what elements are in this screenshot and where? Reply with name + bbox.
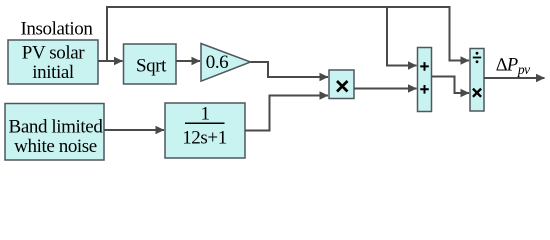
block: Sqrt xyxy=(124,44,177,84)
block: divide xyxy=(470,49,484,112)
wire: transfer fcn output to product input 2 xyxy=(245,96,328,131)
block: Band limited white noise (source) xyxy=(5,104,104,161)
svg-text:∆Ppv: ∆Ppv xyxy=(496,56,530,78)
block: sum (+ +) xyxy=(418,48,432,112)
block: product (multiply) xyxy=(329,70,354,99)
block: PV solar initial (source) xyxy=(8,40,98,84)
svg-text:Band limited: Band limited xyxy=(9,117,104,138)
svg-text:initial: initial xyxy=(32,62,74,83)
label: Insolation xyxy=(21,18,94,39)
block: gain 0.6 (triangle) xyxy=(201,44,251,82)
label: delta P pv (output signal) xyxy=(496,56,530,78)
wire: sum output to divide input 2 xyxy=(432,77,470,94)
svg-text:Insolation: Insolation xyxy=(21,18,94,39)
wire: divide output (diagram output arrow) xyxy=(484,77,545,79)
svg-text:12s+1: 12s+1 xyxy=(182,128,227,149)
wire: PV output to Sqrt input xyxy=(98,60,123,62)
svg-text:1: 1 xyxy=(200,104,209,125)
wire: Sqrt output to gain input xyxy=(176,60,200,62)
wire: branch junction on top wire down to sum input 1 xyxy=(387,7,417,66)
wire: noise output to transfer fcn input xyxy=(104,129,164,131)
block: transfer function 1/(12s+1) xyxy=(165,103,245,158)
wire: gain output to product input 1 xyxy=(251,62,329,77)
wire: branch from PV output up and across the top to divide block xyxy=(107,7,469,61)
svg-text:PV solar: PV solar xyxy=(22,43,86,64)
svg-text:0.6: 0.6 xyxy=(206,52,229,73)
svg-text:white noise: white noise xyxy=(14,136,97,157)
svg-text:Sqrt: Sqrt xyxy=(136,56,167,77)
wire: product output to sum input 2 xyxy=(354,88,417,90)
